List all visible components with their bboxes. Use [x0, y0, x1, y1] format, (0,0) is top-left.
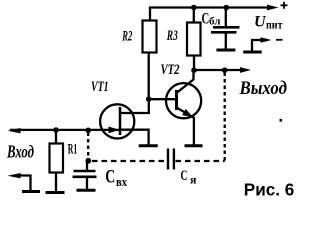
ground under Cvx	[77, 189, 96, 192]
wire: R2 top lead	[149, 7, 151, 21]
capacitor Cbl bottom plate	[211, 31, 237, 34]
wire: VT2 base lead	[149, 98, 177, 100]
capacitor Cvx top plate	[74, 170, 96, 172]
dashed wire: Cya right to output net	[176, 160, 225, 162]
speck	[280, 119, 283, 122]
arrow: +Upit terminal	[264, 7, 272, 9]
ground under R1	[46, 191, 65, 194]
arrow: input terminal	[8, 128, 21, 133]
svg-text:я: я	[190, 173, 197, 187]
capacitor Cbl top plate	[213, 26, 240, 29]
minus sign	[276, 39, 283, 41]
node: input-R1 junction	[53, 127, 59, 133]
ground under minus terminal	[243, 51, 262, 54]
ground under VT2 emitter	[185, 144, 203, 147]
wire: VT1 source lead	[120, 130, 149, 146]
wire: VT1 drain lead	[120, 99, 149, 113]
transistor VT1 circle	[100, 104, 134, 138]
VT1 channel bar	[119, 107, 122, 135]
svg-text:VT1: VT1	[91, 79, 109, 95]
VT1 gate arrow	[109, 127, 120, 134]
wire: output line	[194, 69, 242, 71]
ground under lower input	[22, 190, 40, 193]
dashed wire: output net vertical	[224, 73, 226, 162]
svg-text:Рис. 6: Рис. 6	[244, 179, 295, 199]
capacitor Cya right plate	[173, 149, 175, 170]
node: rail-Cbl junction	[224, 5, 230, 11]
svg-text:VT2: VT2	[161, 62, 180, 78]
node: output-dashed junction	[222, 67, 228, 73]
node: rail-R3 junction	[191, 5, 197, 11]
node: input-dashed junction	[85, 128, 91, 134]
svg-text:бл: бл	[209, 15, 221, 27]
resistor R2	[143, 21, 157, 53]
wire: lower input to ground	[16, 176, 31, 192]
wire: Cbl bottom lead	[225, 34, 227, 50]
svg-text:С: С	[181, 168, 188, 184]
resistor R1	[50, 144, 64, 173]
node: Cvx junction	[85, 158, 91, 164]
wire: VT2 emitter lead down	[193, 117, 195, 146]
svg-text:R3: R3	[166, 28, 178, 44]
wire: R3 bottom lead to output junction	[193, 56, 195, 71]
wire: input line / VT1 gate	[10, 129, 119, 131]
arrow: output	[240, 67, 251, 73]
svg-text:вх: вх	[116, 175, 128, 189]
ground under Cbl	[216, 49, 235, 52]
ground under VT1 source	[139, 144, 158, 147]
wire: Cbl top lead	[225, 8, 227, 27]
wire: R1 bottom lead	[55, 173, 57, 193]
wire: R2 bottom lead to drain junction	[148, 53, 150, 101]
VT2 base bar	[175, 90, 178, 110]
svg-text:R1: R1	[68, 142, 78, 158]
minus terminal wire	[251, 40, 253, 51]
resistor R3	[187, 23, 201, 56]
transistor VT2 circle	[166, 83, 201, 118]
wire: top supply rail	[149, 6, 272, 8]
VT2 collector	[177, 69, 194, 93]
dashed wire: input stray cap vertical	[87, 133, 89, 159]
dashed wire: to Cya left	[92, 160, 167, 162]
capacitor Cya left plate	[167, 149, 169, 170]
wire: Cvx bottom lead	[86, 178, 88, 190]
VT2 emitter	[177, 108, 194, 118]
node: drain/R2/base junction	[146, 96, 152, 102]
wire: Cvx top lead	[86, 162, 88, 170]
svg-text:С: С	[105, 166, 115, 187]
plus sign	[281, 4, 288, 6]
svg-text:Выход: Выход	[239, 79, 287, 99]
svg-text:Вход: Вход	[6, 142, 34, 162]
svg-text:R2: R2	[122, 29, 133, 45]
wire: R1 top lead	[55, 130, 57, 144]
svg-text:пит: пит	[266, 20, 283, 32]
wire: R3 top lead	[193, 7, 195, 23]
node: collector/R3 junction	[191, 67, 197, 73]
capacitor Cvx bottom plate	[73, 176, 97, 179]
arrow: lower input terminal	[8, 173, 21, 178]
